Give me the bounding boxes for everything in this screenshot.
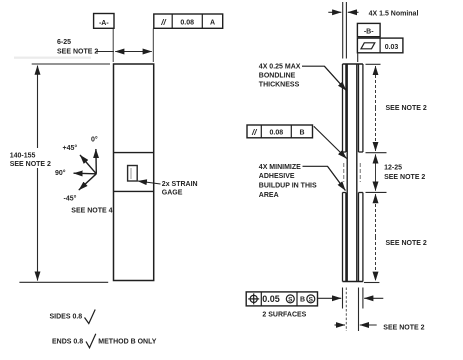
right doubler lower bbox=[359, 193, 363, 282]
right dimension line upper segment bbox=[375, 66, 377, 108]
right dimension line gap segment bbox=[375, 154, 377, 172]
position feature control frame 0.05 S B S bbox=[246, 292, 317, 306]
dimension 6-25 arrows bbox=[115, 51, 133, 53]
svg-text:0.08: 0.08 bbox=[180, 20, 194, 27]
strain gage bbox=[128, 166, 138, 182]
extension line from parallelism frame to specimen bbox=[152, 29, 154, 63]
dimension 140-155 extension line bottom bbox=[19, 281, 108, 283]
svg-text:THICKNESS: THICKNESS bbox=[259, 82, 300, 89]
rosette -45 deg arrow bbox=[79, 174, 97, 190]
svg-text:0.05: 0.05 bbox=[262, 294, 280, 304]
svg-text:4X 1.5 Nominal: 4X 1.5 Nominal bbox=[369, 11, 419, 18]
svg-text:SEE NOTE 2: SEE NOTE 2 bbox=[386, 105, 427, 112]
rosette 90 deg arrow bbox=[74, 172, 97, 175]
assembly bottom edge bbox=[343, 281, 363, 283]
extension line from datum A box to specimen bbox=[112, 29, 114, 63]
bottom extension line inner right bbox=[358, 288, 360, 332]
doubler edge line upper bbox=[114, 152, 154, 154]
svg-text:A: A bbox=[210, 20, 215, 27]
svg-text:SEE NOTE 2: SEE NOTE 2 bbox=[383, 325, 424, 332]
svg-text:2x STRAIN: 2x STRAIN bbox=[162, 181, 198, 188]
svg-text:S: S bbox=[288, 297, 293, 304]
svg-text:SEE NOTE 2: SEE NOTE 2 bbox=[386, 240, 427, 247]
svg-text:4X 0.25 MAX: 4X 0.25 MAX bbox=[259, 64, 301, 71]
parallelism feature control frame 0.08 B bbox=[247, 125, 313, 138]
scan artifact streak bbox=[14, 57, 91, 59]
svg-text:6-25: 6-25 bbox=[57, 39, 71, 46]
svg-text:S: S bbox=[309, 297, 314, 304]
svg-text:-B-: -B- bbox=[364, 29, 374, 36]
svg-text:+45°: +45° bbox=[63, 144, 78, 152]
leader bondline note bbox=[302, 66, 346, 90]
svg-text:ADHESIVE: ADHESIVE bbox=[259, 173, 295, 180]
finish check symbol sides bbox=[85, 310, 96, 324]
connector datum B frame to strap edge bbox=[357, 53, 359, 62]
bottom extension line inner left bbox=[345, 288, 347, 332]
svg-text://: // bbox=[251, 128, 257, 137]
svg-text:90°: 90° bbox=[55, 169, 66, 177]
doubler edge line lower bbox=[114, 190, 154, 192]
leader to strain gage bbox=[138, 181, 161, 184]
strap right edge bbox=[356, 64, 358, 282]
strap thickness dimension arrows bbox=[335, 324, 346, 326]
position symbol bbox=[250, 295, 257, 302]
left doubler lower bbox=[343, 193, 346, 282]
rosette +45 deg arrow bbox=[80, 155, 96, 174]
dimension 140-155 extension line top bbox=[32, 63, 110, 65]
svg-text:SEE NOTE 2: SEE NOTE 2 bbox=[57, 48, 98, 55]
finish check symbol ends bbox=[86, 334, 96, 348]
adhesive dash left in gap bbox=[343, 163, 345, 182]
extension lines for 4x 1.5 dimension bbox=[342, 2, 344, 59]
dimension 140-155 line lower segment bbox=[37, 168, 39, 281]
bottom extension line outer right bbox=[362, 288, 364, 309]
overall thickness dimension arrows bbox=[318, 297, 341, 299]
adhesive dash right in gap bbox=[359, 163, 361, 182]
flatness feature control frame 0.03 bbox=[357, 38, 403, 53]
leader parallelism frame to strap face bbox=[314, 126, 347, 158]
right dimension extension line gap bottom bbox=[366, 191, 387, 193]
strap left edge bbox=[346, 64, 348, 282]
right dimension extension line bottom bbox=[364, 282, 380, 284]
svg-text:METHOD B ONLY: METHOD B ONLY bbox=[98, 338, 156, 345]
dimension 4x 1.5 nominal arrows bbox=[328, 11, 341, 13]
svg-text:0.08: 0.08 bbox=[269, 130, 283, 137]
svg-text:BONDLINE: BONDLINE bbox=[259, 73, 296, 80]
specimen outline bbox=[114, 64, 154, 281]
svg-text:0.03: 0.03 bbox=[385, 44, 399, 51]
svg-text:SIDES 0.8: SIDES 0.8 bbox=[50, 314, 83, 321]
rosette 0 deg arrow bbox=[95, 149, 97, 174]
right dimension line lower segment bbox=[375, 194, 377, 237]
datum A symbol bbox=[94, 14, 114, 29]
bottom extension line outer left bbox=[342, 288, 344, 309]
svg-text:AREA: AREA bbox=[259, 192, 279, 199]
assembly top edge bbox=[343, 63, 363, 65]
left doubler upper bbox=[343, 64, 346, 152]
svg-text:B: B bbox=[299, 130, 304, 137]
S modifier 1 bbox=[286, 295, 294, 303]
svg-text:GAGE: GAGE bbox=[162, 190, 183, 197]
svg-text:SEE NOTE 4: SEE NOTE 4 bbox=[71, 208, 112, 215]
leader adhesive note bbox=[303, 166, 346, 190]
svg-text:BUILDUP IN THIS: BUILDUP IN THIS bbox=[259, 183, 317, 190]
svg-text:0°: 0° bbox=[91, 135, 98, 143]
svg-text:12-25: 12-25 bbox=[384, 165, 402, 172]
dimension 140-155 line upper segment bbox=[37, 66, 39, 148]
svg-text://: // bbox=[160, 18, 166, 27]
datum B symbol bbox=[357, 23, 380, 36]
parallelism feature control frame 0.08 A bbox=[154, 14, 223, 28]
svg-text:ENDS 0.8: ENDS 0.8 bbox=[52, 338, 83, 345]
right dimension extension line top bbox=[366, 63, 381, 65]
svg-text:-A-: -A- bbox=[99, 20, 109, 27]
svg-text:-45°: -45° bbox=[64, 194, 77, 202]
S modifier 2 bbox=[307, 295, 315, 303]
right doubler upper bbox=[359, 64, 363, 152]
svg-text:2 SURFACES: 2 SURFACES bbox=[262, 312, 306, 319]
svg-text:SEE NOTE 2: SEE NOTE 2 bbox=[384, 174, 425, 181]
svg-text:140-155: 140-155 bbox=[10, 152, 36, 159]
dimension 6-25 leader bbox=[96, 51, 114, 53]
right dimension extension line gap top bbox=[366, 152, 387, 154]
svg-text:4X MINIMIZE: 4X MINIMIZE bbox=[259, 164, 301, 171]
svg-text:SEE NOTE 2: SEE NOTE 2 bbox=[10, 161, 51, 168]
svg-text:B: B bbox=[300, 297, 305, 304]
